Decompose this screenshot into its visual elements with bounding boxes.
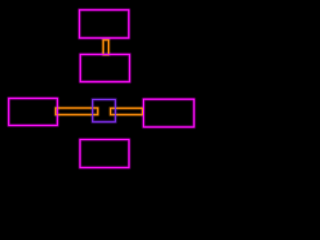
hub square U4 center <box>93 100 116 122</box>
block U5 right <box>144 99 195 127</box>
bus right horizontal connector (glow) <box>111 108 143 115</box>
block U6 bottom <box>80 140 129 168</box>
block top (glow) <box>79 10 128 38</box>
bus B2 left horizontal connector <box>56 108 98 115</box>
bus B3 right horizontal connector <box>111 108 143 115</box>
block left (glow) <box>9 98 58 125</box>
core layer <box>9 10 194 168</box>
bus left horizontal connector (glow) <box>56 108 98 115</box>
glow layer <box>9 10 194 168</box>
block U2 upper-middle <box>80 54 129 81</box>
bus B1 vertical connector <box>103 40 108 55</box>
block right (glow) <box>144 99 195 127</box>
block U3 left <box>9 98 58 125</box>
bus vertical connector (glow) <box>103 40 108 55</box>
hub square center (glow) <box>93 100 116 122</box>
block upper-middle (glow) <box>80 54 129 81</box>
block U1 top <box>79 10 128 38</box>
block bottom (glow) <box>80 140 129 168</box>
